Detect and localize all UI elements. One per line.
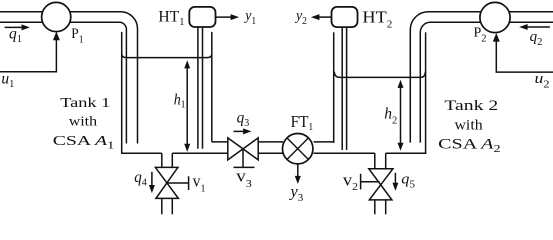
svg-text:with: with xyxy=(455,117,483,133)
svg-text:CSA A2: CSA A2 xyxy=(438,135,501,154)
svg-text:q1: q1 xyxy=(9,25,22,45)
svg-text:v3: v3 xyxy=(236,167,252,190)
svg-text:h1: h1 xyxy=(174,92,186,111)
svg-text:P1: P1 xyxy=(71,26,83,45)
svg-text:y2: y2 xyxy=(294,8,307,28)
svg-text:Tank 1: Tank 1 xyxy=(60,94,110,110)
svg-text:y1: y1 xyxy=(243,8,256,28)
svg-text:Tank 2: Tank 2 xyxy=(444,96,498,113)
svg-text:h2: h2 xyxy=(384,105,397,126)
svg-text:HT2: HT2 xyxy=(362,7,392,30)
svg-text:q3: q3 xyxy=(237,109,250,129)
svg-text:v1: v1 xyxy=(193,173,206,194)
svg-text:HT1: HT1 xyxy=(158,9,184,28)
svg-text:y3: y3 xyxy=(288,184,303,204)
svg-text:q2: q2 xyxy=(530,29,543,48)
svg-text:u1: u1 xyxy=(1,71,14,91)
svg-text:q4: q4 xyxy=(134,169,147,189)
svg-text:FT1: FT1 xyxy=(291,113,314,133)
svg-text:v2: v2 xyxy=(343,170,358,193)
svg-text:with: with xyxy=(69,114,98,129)
svg-text:CSA A1: CSA A1 xyxy=(53,133,115,151)
svg-text:q5: q5 xyxy=(401,171,415,190)
